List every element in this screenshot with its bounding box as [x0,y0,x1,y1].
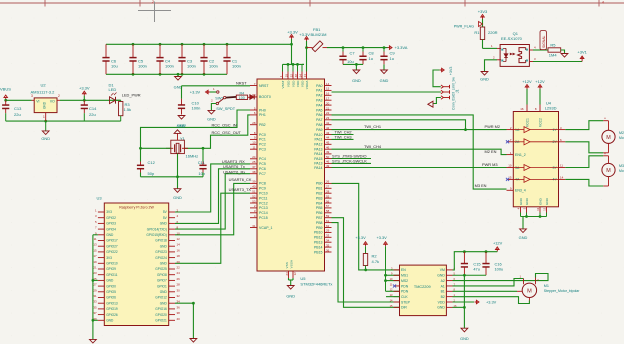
svg-text:GND: GND [460,336,469,341]
svg-text:GND: GND [519,235,528,240]
svg-text:+12V: +12V [522,79,532,84]
wire stub TWI_CH2 [332,134,354,136]
svg-text:TWI_CH3: TWI_CH3 [335,134,352,139]
svg-text:36: 36 [326,248,330,252]
wire MCU VDD rail [283,63,305,72]
svg-text:56: 56 [326,199,330,203]
svg-text:Stepper_Motor_bipolar: Stepper_Motor_bipolar [544,289,580,293]
svg-text:PC12: PC12 [259,201,268,205]
svg-text:PA8: PA8 [316,123,322,127]
power +3.3VA [388,45,408,50]
ground below C7 C8 [352,70,361,83]
wire crystal ground rail [141,154,204,179]
wire VDD to +3.3V [453,300,497,305]
svg-text:R2: R2 [372,254,378,259]
svg-text:TWI_CH4: TWI_CH4 [364,144,382,149]
svg-text:USART6_Rx: USART6_Rx [223,169,245,174]
svg-text:EN3_4: EN3_4 [515,189,526,193]
svg-text:BLM21M: BLM21M [311,32,327,37]
svg-text:37: 37 [252,165,256,169]
svg-text:VCC2: VCC2 [539,118,543,127]
svg-text:220R: 220R [488,30,498,35]
capacitor C11 [198,147,207,177]
svg-text:PA11: PA11 [314,138,322,142]
capacitor C15 [461,252,481,276]
wire USART3_RX PC5 to RPi [175,164,250,212]
svg-text:VBUS: VBUS [0,86,11,91]
power +12V pair above U4 [522,79,545,105]
svg-text:17: 17 [93,254,97,258]
svg-text:PH0: PH0 [259,108,266,112]
ground below stepper driver [460,328,469,341]
svg-text:USART3_TX: USART3_TX [229,187,252,192]
svg-text:49: 49 [326,150,330,154]
svg-text:29: 29 [93,288,97,292]
svg-text:GPIO18: GPIO18 [155,239,167,243]
svg-text:PB5: PB5 [316,206,323,210]
svg-text:U3: U3 [97,196,103,201]
svg-text:+3.3V: +3.3V [79,86,90,91]
svg-text:PC0: PC0 [259,133,266,137]
svg-text:AMS1117-3.2: AMS1117-3.2 [31,90,56,95]
svg-text:PH1: PH1 [259,113,266,117]
svg-text:GPIO20: GPIO20 [155,313,167,317]
svg-text:+: + [604,152,606,156]
svg-text:GPIO0: GPIO0 [106,284,116,288]
svg-text:GND: GND [437,274,445,278]
svg-text:+3.3V: +3.3V [355,235,366,240]
MCU right side pins PA port [314,82,331,170]
power +3.3V for BOOT0 switch [190,87,216,95]
MCU right side pins PB port [314,180,332,255]
svg-text:PB2: PB2 [259,123,266,127]
svg-text:EN: EN [401,268,406,272]
svg-text:34: 34 [326,239,330,243]
svg-text:STM32F446RETx: STM32F446RETx [300,281,332,286]
svg-text:25: 25 [252,160,256,164]
svg-text:14: 14 [326,82,330,86]
capacitor C4 [156,44,174,74]
svg-text:PA9: PA9 [316,128,322,132]
svg-text:11: 11 [94,237,97,241]
svg-text:+12V: +12V [535,79,545,84]
svg-text:35: 35 [93,305,97,309]
svg-text:TMC2209: TMC2209 [414,285,431,289]
svg-text:100n: 100n [232,63,241,68]
svg-text:19: 19 [284,74,288,78]
svg-text:PA6: PA6 [316,113,322,117]
svg-text:10: 10 [508,164,512,168]
svg-text:22: 22 [326,111,330,115]
svg-text:10u: 10u [111,63,118,68]
wire ground return rail of regulator [6,120,121,123]
svg-text:FB1: FB1 [313,27,321,32]
svg-text:20: 20 [326,101,330,105]
stepper driver U6 TMC2209 [390,265,457,316]
svg-text:40: 40 [177,317,181,321]
svg-text:4: 4 [602,1,604,5]
svg-text:10: 10 [177,231,181,235]
svg-text:45: 45 [326,141,330,145]
svg-text:15: 15 [93,248,97,252]
svg-text:22u: 22u [89,112,96,117]
connector J1 Conn_01x03_Limit_Switch [441,77,460,110]
svg-text:B1: B1 [441,290,445,294]
svg-text:GND: GND [380,78,389,83]
svg-text:20: 20 [177,260,181,264]
ground below crystal [173,177,182,200]
svg-text:+3V1: +3V1 [577,50,587,55]
wire U2 VO to +3.3V node [60,99,121,102]
MCU top power pins VBAT VDD VDDA [279,72,309,90]
svg-text:M1: M1 [544,284,549,288]
svg-text:35: 35 [326,243,330,247]
svg-text:Mot: Mot [619,136,624,140]
ground right of R5 [561,54,568,58]
resistor R4 100 [236,91,247,100]
svg-text:GND: GND [43,101,47,109]
svg-text:1u: 1u [369,56,373,61]
svg-text:GPIO6: GPIO6 [106,296,116,300]
svg-text:19: 19 [93,260,97,264]
svg-text:A2: A2 [441,279,445,283]
svg-text:16: 16 [520,107,524,111]
svg-text:10p: 10p [198,171,205,176]
svg-text:VDD: VDD [300,80,304,87]
svg-text:LED_PWR: LED_PWR [122,93,141,98]
svg-text:3V3: 3V3 [106,256,112,260]
svg-text:38: 38 [177,311,181,315]
svg-text:GPIO16: GPIO16 [155,307,167,311]
svg-text:63: 63 [285,272,289,276]
svg-text:100u: 100u [495,266,504,271]
svg-text:B2: B2 [441,295,445,299]
capacitor C5 [129,44,147,74]
wire PB8 to stepper STEP [332,223,400,302]
svg-text:GPIO11: GPIO11 [106,273,118,277]
wire A1 to stepper motor [453,279,524,286]
svg-text:VBAT: VBAT [281,80,285,88]
resistor R1 220R [474,27,497,48]
wire PB0 to stepper EN [332,183,400,271]
wire B1 to stepper motor [453,290,518,292]
svg-text:VDD: VDD [286,80,290,87]
capacitor C8 [359,48,374,65]
svg-text:L293D: L293D [545,106,557,111]
svg-text:PC10: PC10 [259,192,268,196]
ground below RPi right [190,339,197,343]
svg-text:15: 15 [326,87,330,91]
svg-text:GND: GND [480,77,489,82]
svg-text:PC9: PC9 [259,187,266,191]
svg-text:PB3: PB3 [316,196,323,200]
svg-text:GPIO19: GPIO19 [106,307,118,311]
svg-text:GND: GND [177,123,186,128]
svg-text:PB7: PB7 [316,216,323,220]
svg-text:23: 23 [93,271,97,275]
svg-text:PDN: PDN [401,290,409,294]
svg-text:GND: GND [106,233,114,237]
wire VM to +12V [453,250,498,270]
svg-text:EN1_2: EN1_2 [515,153,526,157]
svg-text:44: 44 [326,136,330,140]
svg-text:21: 21 [93,266,97,270]
svg-text:11: 11 [252,146,255,150]
svg-text:PB14: PB14 [314,245,323,249]
ground arrow left of J1 pin3 [428,101,433,107]
wire +3.3VA analog rail [327,46,388,49]
svg-text:60: 60 [252,93,256,97]
power +3.3V above R2 [355,235,367,253]
svg-text:PA2: PA2 [316,94,322,98]
svg-text:USART6_Tx: USART6_Tx [223,164,245,169]
ground above crystal case [174,123,185,140]
motor M3 [602,152,624,186]
motor M2 [602,117,624,153]
node VBUS power input [0,86,11,100]
svg-text:+3V3: +3V3 [449,67,453,76]
svg-text:GPIO9: GPIO9 [106,267,116,271]
svg-text:PB12: PB12 [314,236,323,240]
svg-text:GND: GND [160,262,168,266]
svg-text:58: 58 [326,209,330,213]
svg-text:33: 33 [326,234,330,238]
capacitor C2 [200,44,218,74]
svg-text:PC2: PC2 [259,143,266,147]
svg-text:59: 59 [326,214,330,218]
svg-text:C9: C9 [390,51,396,56]
svg-text:SYS_JTCK-SWCLK: SYS_JTCK-SWCLK [332,158,367,163]
svg-text:100n: 100n [187,63,196,68]
svg-text:46: 46 [326,146,330,150]
wire A2 to stepper motor [453,274,549,281]
svg-text:NRST: NRST [259,84,269,88]
capacitor C12 [137,148,156,177]
svg-text:Raspberry Pi Zero 2W: Raspberry Pi Zero 2W [119,205,154,209]
svg-text:4.7k: 4.7k [372,259,380,264]
svg-text:M3: M3 [619,164,624,168]
cursor crosshair [138,2,171,23]
svg-text:28: 28 [326,190,330,194]
capacitor C16 [482,252,503,276]
svg-text:3V3: 3V3 [106,210,112,214]
svg-text:+3.3V: +3.3V [486,300,497,305]
U4 right pins with amplifier arrows [513,126,565,183]
svg-text:GPIO10: GPIO10 [106,262,118,266]
svg-text:LED: LED [109,87,117,92]
wire 2Y to motor M2 minus [565,142,603,153]
svg-text:13: 13 [303,74,307,78]
svg-text:M: M [606,168,611,174]
svg-text:BOOT0: BOOT0 [259,95,271,99]
svg-text:50p: 50p [148,171,155,176]
svg-text:+12V: +12V [493,240,503,245]
svg-text:PA10: PA10 [314,133,322,137]
resistor R3 1.5k [119,100,132,121]
capacitor C9 [380,46,395,70]
svg-text:SIGNAL: SIGNAL [542,35,546,48]
svg-text:22: 22 [177,266,181,270]
ground of capacitor bank [174,74,183,89]
svg-text:GND: GND [286,294,295,299]
resistor R5 1M4 [548,43,561,58]
svg-text:TWI_CH1: TWI_CH1 [364,124,381,129]
svg-text:16: 16 [326,92,330,96]
svg-text:PA3: PA3 [316,99,322,103]
svg-text:24: 24 [252,155,256,159]
svg-text:GPIO23: GPIO23 [155,250,167,254]
svg-text:GPIO13: GPIO13 [106,301,118,305]
wire crystal left node [139,147,171,150]
svg-text:GND: GND [160,222,168,226]
svg-text:M: M [527,289,532,295]
svg-text:M2: M2 [619,131,624,135]
wire USART6_Rx PC7 to RPi [175,174,250,229]
svg-text:30: 30 [177,288,181,292]
motor driver U4 L293D [513,100,558,207]
power +3.3V at regulator output [79,86,90,101]
resistor R2 4.7k [363,254,379,270]
wire VBUS to U2 VI [4,99,31,102]
wire U4 ground rail [521,215,547,229]
ground below RPi left [90,339,97,343]
svg-text:+3V3: +3V3 [478,9,488,14]
svg-text:22u: 22u [14,112,21,117]
svg-text:PWR_FLAG: PWR_FLAG [454,24,474,28]
svg-text:64: 64 [298,74,302,78]
wire R1 to opto anode [483,44,502,48]
svg-text:49: 49 [326,164,330,168]
svg-text:+3.3V: +3.3V [299,32,310,37]
svg-text:28: 28 [252,121,256,125]
svg-text:VDD: VDD [296,80,300,87]
svg-text:PC6: PC6 [259,167,266,171]
svg-text:GPIO1: GPIO1 [157,284,167,288]
crystal Y1 16MHz [166,136,198,159]
svg-text:NRST: NRST [236,81,247,86]
wire stub TWI_CH3 [332,138,354,140]
svg-text:GND: GND [106,279,114,283]
svg-text:PB8: PB8 [316,221,323,225]
power +3V1 [577,50,587,62]
wire RPi left ground bus [92,235,98,340]
svg-text:PB2: PB2 [316,192,323,196]
svg-text:57: 57 [326,204,330,208]
svg-text:PDN: PDN [401,284,409,288]
svg-text:C7: C7 [350,51,356,56]
svg-text:MS1: MS1 [401,274,408,278]
svg-text:GND: GND [545,197,549,205]
svg-text:GND: GND [41,136,50,141]
svg-text:GPIO17: GPIO17 [106,239,118,243]
wire TWI_CH4 to motor driver EN1_2 M2 EN [332,149,507,154]
svg-text:32: 32 [289,74,293,78]
wire stepper ground tie [453,274,487,277]
power +3.3V at ferrite input [299,32,310,71]
svg-text:GPIO21: GPIO21 [155,319,167,323]
svg-text:VO: VO [50,100,55,104]
wire C7 C8 ground tie [343,63,363,70]
svg-text:GND: GND [160,244,168,248]
svg-text:PC11: PC11 [259,196,268,200]
svg-text:GND: GND [207,116,216,121]
svg-text:PA5: PA5 [316,108,322,112]
svg-text:GND: GND [525,197,529,205]
LED D1 [109,82,117,103]
capacitor C3 [178,44,196,74]
wire LED to R3 [116,99,121,101]
RPi header pins [93,209,180,323]
svg-text:31: 31 [252,224,256,228]
svg-text:33: 33 [93,300,97,304]
svg-text:USART6_CK: USART6_CK [229,177,252,182]
wire TWI_CH1 PWR M2 to motor driver 1A [332,129,507,131]
svg-text:MS2: MS2 [401,279,408,283]
svg-text:PA4: PA4 [316,103,322,107]
svg-text:27: 27 [93,283,97,287]
svg-text:DIR: DIR [401,306,407,310]
svg-text:RCC_OSC_IN: RCC_OSC_IN [212,122,237,127]
wire J1 pin3 to ground [433,98,441,104]
wire PA1 to J1 limit switch [332,91,441,93]
svg-text:10: 10 [252,141,256,145]
svg-text:+3.3V: +3.3V [287,29,298,34]
capacitor C14 [81,100,97,121]
svg-text:EE-SX1070: EE-SX1070 [501,36,523,41]
ground below MCU [286,286,295,299]
wire RCC_OSC_IN [141,110,251,148]
svg-text:40: 40 [252,185,256,189]
svg-text:+3.3V: +3.3V [377,235,388,240]
wire 1Y to motor M2 plus [565,121,603,130]
capacitor C10 [178,86,201,115]
wire stub SYS_JTMS-SWDIO [332,158,372,160]
U4 ground pins [517,197,549,216]
wire PA6 to motor driver EN3_4 M3 EN [332,115,507,189]
svg-text:GPIO2: GPIO2 [106,216,116,220]
svg-text:GPIO4: GPIO4 [106,227,116,231]
wire B2 to stepper motor [453,297,530,304]
ground below C10 [177,116,186,128]
svg-text:Mot: Mot [619,169,624,173]
wire USART6_CK PC8 to RPi [175,183,250,234]
svg-text:PC14: PC14 [259,211,268,215]
svg-text:14: 14 [177,243,181,247]
svg-text:1M4: 1M4 [549,52,558,57]
svg-text:PA14: PA14 [314,152,322,156]
svg-text:VSSA: VSSA [290,259,294,268]
svg-text:PA15: PA15 [314,157,322,161]
svg-text:PB4: PB4 [316,201,323,205]
svg-text:24: 24 [177,271,181,275]
MCU bottom pins VSS VSSA [285,259,297,285]
svg-text:C13: C13 [14,106,22,111]
svg-text:28: 28 [177,283,181,287]
svg-text:41: 41 [326,121,330,125]
svg-text:SW_SPDT: SW_SPDT [216,106,235,111]
svg-text:GPIO27: GPIO27 [106,244,118,248]
svg-text:GND: GND [160,301,168,305]
svg-text:100: 100 [239,96,245,100]
svg-text:R4: R4 [240,91,245,95]
svg-text:GPIO14(TXD): GPIO14(TXD) [147,227,167,231]
svg-text:VDD: VDD [438,300,446,304]
svg-text:GPIO26: GPIO26 [106,313,118,317]
svg-text:1u: 1u [390,56,394,61]
svg-text:GPIO24: GPIO24 [155,256,167,260]
svg-text:42: 42 [326,126,330,130]
stepper motor M1 Stepper_Motor_bipolar [517,275,580,301]
